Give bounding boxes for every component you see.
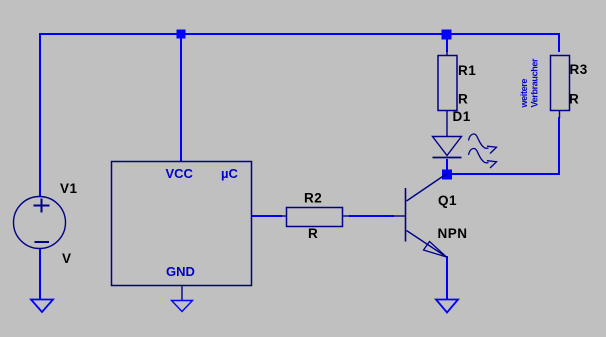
- wire D1 cathode to junction: [446, 159, 448, 170]
- svg-text:R3: R3: [570, 62, 588, 77]
- svg-text:V1: V1: [60, 181, 78, 196]
- label R3: [570, 62, 588, 77]
- svg-text:µC: µC: [221, 166, 238, 181]
- wire uC to R2: [251, 215, 282, 217]
- pin stub R2 right: [342, 215, 350, 217]
- svg-text:NPN: NPN: [438, 226, 468, 241]
- pin stub uC right to R2 left: [281, 215, 287, 217]
- svg-text:VCC: VCC: [166, 166, 194, 181]
- wire R2 to Q1 base: [349, 215, 394, 217]
- pin stub uC GND: [181, 286, 183, 301]
- svg-text:weitere: weitere: [519, 79, 529, 109]
- svg-text:Verbraucher: Verbraucher: [530, 58, 540, 108]
- pin label GND: [166, 264, 195, 279]
- wire V1 top to top rail: [39, 34, 41, 196]
- ground under V1: [31, 300, 53, 313]
- svg-text:D1: D1: [453, 109, 471, 124]
- pin stub R3 bottom: [559, 111, 561, 118]
- ground under Q1: [436, 300, 458, 313]
- svg-text:R: R: [458, 92, 468, 107]
- label R1: [458, 63, 476, 78]
- junction node at VCC branch: [177, 30, 186, 39]
- LED light arrow 1: [469, 134, 497, 153]
- svg-text:Q1: Q1: [438, 193, 457, 208]
- label D1: [453, 109, 471, 124]
- pin stub R1 top: [446, 50, 448, 56]
- svg-text:R1: R1: [458, 63, 476, 78]
- net label weitere Verbraucher line 1: [519, 79, 529, 109]
- wire V1 bottom to ground: [39, 248, 41, 300]
- value label R of R3: [569, 92, 579, 107]
- wire Q1 emitter to ground: [446, 256, 448, 300]
- wire R3 drop from top rail: [558, 33, 560, 52]
- V1 minus sign: [35, 241, 50, 243]
- value label NPN: [438, 226, 468, 241]
- svg-text:R: R: [308, 226, 318, 241]
- label R2: [304, 191, 322, 206]
- junction node at R1 branch: [442, 30, 452, 40]
- V1 plus sign: [34, 199, 50, 213]
- resistor R1: [438, 56, 457, 111]
- svg-text:R2: R2: [304, 191, 322, 206]
- resistor R2: [287, 208, 343, 227]
- pin stub Q1 base: [393, 215, 405, 217]
- ground under uC: [172, 301, 193, 312]
- value label R of R2: [308, 226, 318, 241]
- resistor R3: [551, 56, 570, 111]
- transistor Q1 collector line: [407, 174, 448, 202]
- pin stub R1 bottom to D1: [446, 110, 448, 137]
- wire junction to R3 bottom: [452, 117, 560, 175]
- value label R of R1: [458, 92, 468, 107]
- pin label VCC: [166, 166, 194, 181]
- LED light arrow 2: [469, 149, 497, 168]
- wire top rail: [39, 33, 560, 35]
- svg-text:R: R: [569, 92, 579, 107]
- svg-text:V: V: [62, 251, 72, 266]
- value label V: [62, 251, 72, 266]
- transistor Q1 emitter arrowhead: [424, 242, 447, 258]
- transistor Q1 emitter line: [407, 231, 447, 258]
- label V1: [60, 181, 78, 196]
- voltage source V1 circle: [14, 197, 66, 249]
- label uC: [221, 166, 238, 181]
- label Q1: [438, 193, 457, 208]
- svg-text:GND: GND: [166, 264, 195, 279]
- wire VCC from junction to uC: [180, 35, 182, 161]
- transistor Q1 base bar: [405, 188, 407, 242]
- LED D1 cathode bar: [433, 157, 462, 159]
- wire junction to R1 top: [446, 39, 448, 52]
- microcontroller block U1: [112, 162, 252, 286]
- LED D1 triangle: [433, 137, 462, 156]
- junction node at D1 cathode / collector: [442, 170, 452, 180]
- net label weitere Verbraucher line 2: [530, 58, 540, 108]
